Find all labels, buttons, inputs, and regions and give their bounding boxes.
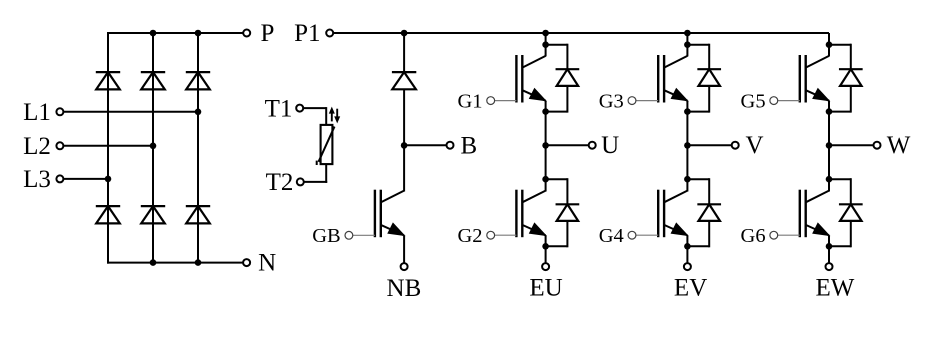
junction on N rail col2 — [150, 259, 157, 266]
terminal circle G6 — [770, 231, 778, 239]
wire freewheel bottom horizontal D12 — [829, 111, 851, 113]
junction leg EU on rail — [542, 30, 549, 37]
terminal circle B — [447, 142, 454, 149]
junction collector bottom — [542, 176, 549, 183]
junction emitter top — [542, 108, 549, 115]
junction node B — [401, 142, 408, 149]
transistor QB body bar — [380, 190, 382, 238]
transistor Q4 body bar — [663, 190, 665, 238]
wire gate lead G4 — [636, 234, 658, 236]
wire leg EW collector drop — [828, 33, 830, 56]
wire freewheel bottom horizontal D8 — [546, 111, 568, 113]
svg-text:G2: G2 — [457, 225, 482, 247]
terminal circle G1 — [487, 97, 495, 105]
junction on N rail col3 — [195, 259, 202, 266]
junction on P rail col3 — [195, 30, 202, 37]
wire freewheel cathode stub D8 — [566, 44, 568, 69]
wire T2 lead horizontal — [303, 181, 327, 183]
svg-text:T2: T2 — [266, 169, 294, 196]
junction collector bottom — [826, 176, 833, 183]
terminal circle N — [243, 259, 250, 266]
transistor Q5 emitter lead — [806, 90, 829, 101]
wire freewheel cathode stub D11 — [708, 178, 710, 204]
transistor Q3 collector lead — [664, 56, 687, 68]
wire leg EW midsection — [828, 101, 830, 192]
wire freewheel anode stub D11 — [708, 221, 710, 247]
wire leg EV collector drop — [686, 33, 688, 56]
wire leg EU midsection — [545, 101, 547, 192]
transistor Q6 emitter lead — [806, 225, 829, 236]
svg-text:EW: EW — [815, 275, 854, 302]
wire freewheel cathode stub D13 — [850, 178, 852, 204]
terminal circle NB — [401, 263, 408, 270]
svg-text:L2: L2 — [23, 133, 51, 160]
wire output W — [829, 144, 874, 146]
wire node B stub — [404, 144, 447, 146]
transistor Q2 gate bar — [515, 190, 517, 238]
svg-text:V: V — [745, 132, 763, 159]
wire freewheel top horizontal D10 — [687, 44, 709, 46]
wire freewheel bottom horizontal D11 — [687, 245, 709, 247]
diode D2 — [96, 205, 120, 207]
svg-text:GB: GB — [312, 225, 340, 247]
transistor QB emitter arrow — [388, 223, 404, 235]
wire freewheel top horizontal D13 — [829, 178, 851, 180]
diode D5 — [186, 71, 210, 73]
transistor Q5 collector lead — [806, 56, 829, 68]
wire freewheel anode stub D8 — [566, 86, 568, 113]
diode D7 brake — [392, 71, 416, 73]
junction emitter bottom — [684, 243, 691, 250]
wire gate lead G6 — [778, 234, 800, 236]
wire rectifier column 2 — [152, 32, 154, 264]
wire freewheel cathode stub D12 — [850, 44, 852, 69]
wire P1 bus rail — [333, 32, 829, 34]
transistor Q2 emitter lead — [522, 225, 545, 236]
svg-text:N: N — [258, 250, 276, 277]
junction on P rail col2 — [150, 30, 157, 37]
diode D11 — [697, 203, 721, 205]
wire rectifier column 1 — [107, 32, 109, 264]
wire freewheel anode stub D10 — [708, 86, 710, 113]
wire freewheel anode stub D12 — [850, 86, 852, 113]
terminal circle G2 — [487, 231, 495, 239]
diode D13 — [839, 203, 863, 205]
transistor Q1 collector lead — [522, 56, 545, 68]
wire brake branch middle — [403, 89, 405, 191]
svg-text:EV: EV — [674, 275, 707, 302]
wire QB emitter to NB — [403, 235, 405, 263]
transistor Q6 emitter arrow — [813, 223, 829, 235]
terminal circle L2 — [56, 142, 63, 149]
svg-text:L1: L1 — [23, 99, 51, 126]
terminal circle P1 — [326, 30, 333, 37]
terminal circle L3 — [56, 175, 63, 182]
wire leg EW emitter to terminal — [828, 235, 830, 263]
wire gate lead G3 — [636, 100, 658, 102]
transistor Q4 collector lead — [664, 191, 687, 203]
junction emitter bottom — [826, 243, 833, 250]
transistor Q6 body bar — [805, 190, 807, 238]
junction diode split top — [826, 41, 833, 48]
transistor Q3 emitter arrow — [671, 89, 687, 101]
diode D10 — [697, 68, 721, 70]
wire input L2 — [63, 145, 153, 147]
wire freewheel bottom horizontal D9 — [546, 245, 568, 247]
thermistor RT1 diagonal foot — [316, 161, 318, 165]
terminal circle EV — [684, 263, 691, 270]
svg-text:G3: G3 — [599, 90, 624, 112]
terminal circle G4 — [628, 231, 636, 239]
thermistor RT1 body — [321, 125, 333, 164]
svg-text:L3: L3 — [23, 166, 51, 193]
wire gate lead G1 — [495, 100, 517, 102]
diode D3 — [141, 71, 165, 73]
junction diode split top — [542, 41, 549, 48]
transistor Q5 body bar — [805, 55, 807, 103]
terminal circle U — [589, 142, 596, 149]
transistor Q4 emitter arrow — [671, 223, 687, 235]
transistor Q4 gate bar — [657, 190, 659, 238]
transistor QB emitter lead — [381, 225, 404, 236]
wire gate lead GB — [353, 234, 375, 236]
wire input L1 — [63, 111, 198, 113]
thermistor RT1 diagonal — [319, 127, 335, 162]
transistor Q2 collector lead — [522, 191, 545, 203]
transistor Q5 emitter arrow — [813, 89, 829, 101]
wire freewheel top horizontal D12 — [829, 44, 851, 46]
wire T2 lead vertical — [325, 165, 327, 183]
wire rectifier column 3 — [197, 32, 199, 264]
wire freewheel top horizontal D9 — [546, 178, 568, 180]
transistor QB gate bar — [374, 190, 376, 238]
wire leg EV midsection — [686, 101, 688, 192]
transistor Q3 emitter lead — [664, 90, 687, 101]
diode D12 — [839, 68, 863, 70]
diode D9 — [556, 203, 580, 205]
wire freewheel bottom horizontal D13 — [829, 245, 851, 247]
transistor Q1 emitter lead — [522, 90, 545, 101]
diode D4 — [141, 205, 165, 207]
terminal circle G5 — [770, 97, 778, 105]
wire freewheel anode stub D9 — [566, 221, 568, 247]
transistor Q1 body bar — [521, 55, 523, 103]
junction L2 to column — [150, 143, 157, 150]
diode D1 — [96, 71, 120, 73]
terminal circle G3 — [628, 97, 636, 105]
svg-text:U: U — [601, 132, 619, 159]
terminal circle T2 — [297, 178, 304, 185]
wire freewheel bottom horizontal D10 — [687, 111, 709, 113]
terminal circle EW — [826, 263, 833, 270]
svg-text:NB: NB — [387, 275, 422, 302]
transistor QB collector lead — [381, 191, 404, 203]
terminal circle L1 — [56, 108, 63, 115]
svg-text:P: P — [260, 20, 274, 47]
terminal circle EU — [542, 263, 549, 270]
svg-text:P1: P1 — [294, 20, 320, 47]
diode D6 — [186, 205, 210, 207]
wire output U — [546, 144, 589, 146]
wire P top rail of rectifier — [107, 32, 243, 34]
junction L3 to column — [105, 176, 112, 183]
svg-text:W: W — [887, 132, 911, 159]
transistor Q5 gate bar — [799, 55, 801, 103]
svg-text:G6: G6 — [741, 225, 766, 247]
transistor Q2 emitter arrow — [530, 223, 546, 235]
wire leg EV emitter to terminal — [686, 235, 688, 263]
junction emitter bottom — [542, 243, 549, 250]
junction output node V — [684, 142, 691, 149]
svg-text:EU: EU — [529, 275, 562, 302]
wire freewheel cathode stub D10 — [708, 44, 710, 69]
transistor Q3 gate bar — [657, 55, 659, 103]
wire gate lead G2 — [495, 234, 517, 236]
transistor Q4 emitter lead — [664, 225, 687, 236]
wire T1 lead vertical — [325, 107, 327, 124]
svg-text:T1: T1 — [265, 96, 293, 123]
terminal circle GB — [345, 231, 353, 239]
wire freewheel anode stub D13 — [850, 221, 852, 247]
junction L1 to column — [195, 109, 202, 116]
wire leg EU collector drop — [545, 33, 547, 56]
terminal circle V — [732, 142, 739, 149]
wire freewheel top horizontal D8 — [546, 44, 568, 46]
svg-text:G1: G1 — [457, 90, 482, 112]
junction output node W — [826, 142, 833, 149]
terminal circle W — [874, 142, 881, 149]
svg-text:G5: G5 — [741, 90, 766, 112]
transistor Q3 body bar — [663, 55, 665, 103]
thermistor RT1 down arrow — [336, 109, 338, 119]
wire input L3 — [63, 178, 108, 180]
junction collector bottom — [684, 176, 691, 183]
wire freewheel cathode stub D9 — [566, 178, 568, 204]
terminal circle P — [243, 30, 250, 37]
svg-text:B: B — [461, 132, 478, 159]
wire gate lead G5 — [778, 100, 800, 102]
transistor Q6 collector lead — [806, 191, 829, 203]
wire leg EU emitter to terminal — [545, 235, 547, 263]
transistor Q1 emitter arrow — [530, 89, 546, 101]
transistor Q2 body bar — [521, 190, 523, 238]
diode D8 — [556, 68, 580, 70]
junction output node U — [542, 142, 549, 149]
junction leg EV on rail — [684, 30, 691, 37]
svg-text:G4: G4 — [599, 225, 624, 247]
thermistor RT1 up arrow — [331, 111, 333, 121]
transistor Q6 gate bar — [799, 190, 801, 238]
terminal circle T1 — [296, 105, 303, 112]
junction brake branch on rail — [401, 30, 408, 37]
wire T1 lead horizontal — [303, 107, 326, 109]
wire output V — [687, 144, 731, 146]
wire brake branch upper — [403, 33, 405, 71]
junction emitter top — [684, 108, 691, 115]
wire freewheel top horizontal D11 — [687, 178, 709, 180]
junction emitter top — [826, 108, 833, 115]
transistor Q1 gate bar — [515, 55, 517, 103]
wire N bottom rail of rectifier — [107, 262, 243, 264]
junction diode split top — [684, 41, 691, 48]
